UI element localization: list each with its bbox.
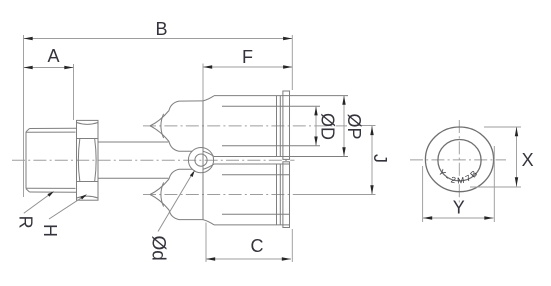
svg-text:F: F (242, 47, 253, 67)
svg-text:ØD: ØD (318, 113, 338, 140)
svg-text:A: A (47, 46, 59, 66)
svg-text:J: J (370, 154, 390, 163)
svg-text:H: H (40, 224, 60, 237)
svg-text:C: C (251, 236, 264, 256)
svg-text:Y: Y (453, 198, 465, 218)
svg-text:B: B (155, 19, 167, 39)
svg-text:X: X (522, 150, 534, 170)
svg-text:R: R (15, 216, 35, 229)
svg-text:Ød: Ød (148, 236, 169, 261)
svg-text:ØP: ØP (344, 113, 364, 139)
